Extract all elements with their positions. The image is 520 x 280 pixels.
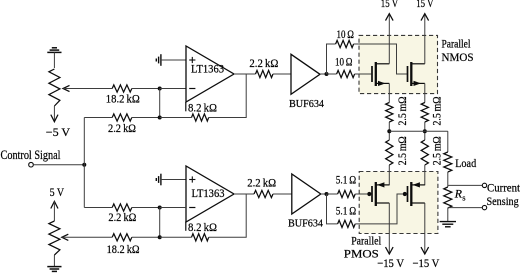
resistor R3 8.2 k (U1 feedback) xyxy=(192,114,209,121)
node F (U2 inverting input) xyxy=(158,206,162,210)
resistor Rs (current sense) xyxy=(444,187,452,208)
wire: node C to R6 xyxy=(327,73,337,75)
wire: Q4 drain down xyxy=(424,203,426,254)
wire: node B to feedback resistor R3 xyxy=(160,117,192,119)
svg-text:2.2 kΩ: 2.2 kΩ xyxy=(249,56,278,70)
label Current Sensing xyxy=(487,181,520,209)
label BUF634 (U4) xyxy=(288,217,323,229)
wire: P2 wiper row to R8 xyxy=(62,236,112,238)
wire: control branch to R7 xyxy=(84,207,112,209)
wire: Q2 source down xyxy=(424,83,426,102)
+15 V supply arrow (left) xyxy=(386,14,394,64)
wire: R16 to Q4 gate with jog xyxy=(355,194,403,224)
node G (U2 feedback summing) xyxy=(158,235,162,239)
label 10 Ohm (R5) xyxy=(337,27,355,41)
transistor Q1 (NMOS, left) xyxy=(372,62,389,86)
wire: U2 output xyxy=(234,193,254,195)
wire: U4 output to node H xyxy=(321,193,327,195)
terminal: current sensing top xyxy=(482,183,486,187)
resistor R12 2.5 mOhm (Q4 drain) xyxy=(421,140,428,165)
label BUF634 (U3) xyxy=(289,98,324,110)
label 2.2 kOhm (R4) xyxy=(249,56,278,70)
svg-text:BUF634: BUF634 xyxy=(288,217,323,229)
wire: ground to U1 + input xyxy=(161,59,186,61)
wire: node H to R15 xyxy=(327,193,338,195)
wire: node C up to R5 xyxy=(327,44,336,74)
op-amp U1 LT1363 (top) xyxy=(186,46,234,102)
svg-text:10 Ω: 10 Ω xyxy=(335,54,353,68)
wire: node F to U2 minus input xyxy=(160,207,186,209)
wire: Q1 source down xyxy=(388,83,390,102)
node A (U1 inverting input) xyxy=(158,87,162,91)
resistor R16 5.1 Ohm (gate of Q4) xyxy=(338,220,356,227)
svg-text:BUF634: BUF634 xyxy=(289,98,324,110)
transistor Q2 (NMOS, right) xyxy=(408,62,425,86)
potentiometer P2 wiper arrow xyxy=(62,234,69,240)
-15 V supply arrow (left) xyxy=(386,247,394,254)
label -15 V (right) xyxy=(413,256,440,270)
svg-text:10 Ω: 10 Ω xyxy=(337,27,355,41)
potentiometer P2 body xyxy=(49,201,60,266)
svg-text:15 V: 15 V xyxy=(416,0,434,10)
resistor R13 8.2 k (U2 feedback) xyxy=(192,234,209,241)
svg-text:2.2 kΩ: 2.2 kΩ xyxy=(247,176,276,190)
wire: output bus to load column xyxy=(389,130,448,132)
Parallel PMOS dashed highlight box xyxy=(359,172,438,234)
svg-text:s: s xyxy=(462,192,465,202)
svg-text:15 V: 15 V xyxy=(381,0,399,10)
svg-text:18.2 kΩ: 18.2 kΩ xyxy=(107,242,140,256)
wire: R5 to Q2 gate with jog xyxy=(354,44,407,74)
label 2.2 kOhm (R7) xyxy=(108,210,136,224)
control signal input terminal xyxy=(29,162,34,167)
wire: R11 into PMOS box xyxy=(388,165,390,185)
transistor Q4 (PMOS, right) xyxy=(403,182,425,206)
label 2.5 mOhm (R9) xyxy=(395,96,409,125)
svg-text:5.1 Ω: 5.1 Ω xyxy=(336,204,356,218)
wire: R12 into PMOS box xyxy=(424,165,426,185)
wire: P1 wiper row to node A xyxy=(64,88,113,90)
wire: load to Rs xyxy=(447,172,449,187)
buffer U4 BUF634 (bottom) xyxy=(292,174,321,214)
wire: Rs to ground xyxy=(447,208,449,222)
ground (below Rs) xyxy=(440,222,456,227)
ground (U1 + input) xyxy=(156,54,161,66)
wire: R3 to U1 output drop xyxy=(209,74,247,118)
resistor Load xyxy=(444,152,452,172)
resistor R1 18.2 k (wiper to U1 inverting input) xyxy=(112,85,132,92)
-15 V supply arrow (right) xyxy=(421,247,429,254)
terminal: current sensing bottom xyxy=(482,205,486,209)
wire: R9 to output bus xyxy=(388,122,390,140)
wire: control branch vertical xyxy=(83,118,85,208)
wire: node F to node G vertical xyxy=(159,208,161,238)
resistor R14 2.2 k (U2 output to U4) xyxy=(254,190,273,197)
label 8.2 kOhm (R13) with lead tick xyxy=(186,220,217,234)
svg-text:2.5 mΩ: 2.5 mΩ xyxy=(429,96,443,125)
svg-text:2.5 mΩ: 2.5 mΩ xyxy=(395,96,409,125)
wire: R13 to U2 output drop xyxy=(209,194,247,237)
svg-text:Control Signal: Control Signal xyxy=(1,148,61,162)
label 2.5 mOhm (R10) xyxy=(429,96,443,125)
wire: sense tap bottom xyxy=(448,207,483,209)
node H (U4 output) xyxy=(325,192,329,196)
label Parallel PMOS xyxy=(344,234,382,261)
label 2.2 kOhm (R14) xyxy=(247,176,276,190)
label 18.2 kOhm (R1) xyxy=(106,92,140,106)
svg-text:LT1363: LT1363 xyxy=(192,186,225,200)
wire: control terminal to junction xyxy=(33,164,84,166)
node C (U3 output) xyxy=(325,72,329,76)
potentiometer P1 body xyxy=(49,52,60,121)
ground (top-left, above potentiometer P1) xyxy=(47,48,61,53)
svg-text:2.2 kΩ: 2.2 kΩ xyxy=(108,210,136,224)
wire: node A to U1 minus input xyxy=(160,88,186,90)
svg-text:2.2 kΩ: 2.2 kΩ xyxy=(108,121,136,135)
wire: R4 to U3 input xyxy=(273,73,291,75)
svg-text:Load: Load xyxy=(455,156,476,170)
svg-text:−15 V: −15 V xyxy=(413,256,440,270)
wire: R14 to U4 input xyxy=(273,193,292,195)
node: control signal branch junction xyxy=(82,163,86,167)
resistor R11 2.5 mOhm (Q3 drain) xyxy=(386,140,393,165)
node D (output bus left) xyxy=(387,129,391,133)
arrow to 5 V supply xyxy=(51,201,58,208)
svg-text:2.5 mΩ: 2.5 mΩ xyxy=(395,136,409,165)
Parallel NMOS dashed highlight box xyxy=(359,35,438,93)
ground (bottom-left, below potentiometer P2) xyxy=(47,267,61,272)
resistor R6 10 Ohm (gate of Q1) xyxy=(337,70,355,77)
svg-text:−5 V: −5 V xyxy=(46,125,71,139)
wire: R15 to Q3 gate bubble xyxy=(355,193,367,195)
wire: R10 to output bus xyxy=(424,122,426,140)
wire: R2 to node B xyxy=(132,117,160,119)
resistor R2 2.2 k (control to U1 summing node) xyxy=(112,114,132,121)
resistor R5 10 Ohm (gate of Q2) xyxy=(336,40,354,47)
wire: node A to node B vertical xyxy=(159,89,161,118)
label -15 V (left) xyxy=(377,256,404,270)
svg-text:−15 V: −15 V xyxy=(377,256,404,270)
node B (feedback summing) xyxy=(158,116,162,120)
label 5.1 Ohm (R16) xyxy=(336,204,356,218)
resistor R15 5.1 Ohm (gate of Q3) xyxy=(338,190,356,197)
svg-text:8.2 kΩ: 8.2 kΩ xyxy=(188,220,217,234)
arrow to -5 V supply xyxy=(51,115,58,122)
potentiometer P1 wiper arrow xyxy=(63,85,70,91)
wire: U3 output to node C xyxy=(320,73,327,75)
resistor R4 2.2 k (U1 output to U3) xyxy=(256,70,274,77)
wire: R7 to node F xyxy=(132,207,160,209)
label 2.2 kOhm (R2) xyxy=(108,121,136,135)
svg-text:2.5 mΩ: 2.5 mΩ xyxy=(429,136,443,165)
wire: node H down to R16 xyxy=(327,194,338,224)
resistor R10 2.5 mOhm (Q2 source) xyxy=(421,103,428,123)
label 5.1 Ohm (R15) xyxy=(336,173,356,187)
wire: R8 to node G xyxy=(132,236,160,238)
label 15 V (left) xyxy=(381,0,399,10)
wire: R1 to node A xyxy=(132,88,160,90)
label Rs xyxy=(454,187,466,203)
svg-text:5 V: 5 V xyxy=(50,185,65,199)
svg-text:PMOS: PMOS xyxy=(344,247,379,261)
svg-text:Sensing: Sensing xyxy=(487,194,519,208)
label LT1363 (U2) xyxy=(192,186,225,200)
wire: output bus down to load xyxy=(447,131,449,152)
wire: ground to U2 + input xyxy=(161,179,186,181)
wire: sense tap top xyxy=(448,184,483,186)
label Load xyxy=(455,156,476,170)
+15 V supply arrow (right) xyxy=(421,14,429,64)
svg-text:18.2 kΩ: 18.2 kΩ xyxy=(106,92,140,106)
resistor R7 2.2 k (control to U2 summing node) xyxy=(112,204,132,211)
svg-text:5.1 Ω: 5.1 Ω xyxy=(336,173,356,187)
label 2.5 mOhm (R12) xyxy=(429,136,443,165)
svg-text:Parallel: Parallel xyxy=(442,36,472,50)
resistor R8 18.2 k (wiper to U2 summing node) xyxy=(112,234,132,241)
label 8.2 kOhm (R3) with lead tick xyxy=(186,101,217,115)
node E (output bus right) xyxy=(423,129,427,133)
label 10 Ohm (R6) xyxy=(335,54,353,68)
resistor R9 2.5 mOhm (Q1 source) xyxy=(386,103,393,123)
op-amp U2 LT1363 (bottom) xyxy=(186,166,234,222)
wire: node G to feedback resistor R13 xyxy=(160,236,192,238)
wire: control branch to R2 xyxy=(84,117,112,119)
svg-text:NMOS: NMOS xyxy=(442,50,474,64)
ground (U2 + input) xyxy=(156,174,161,186)
wire: R6 to Q1 gate xyxy=(355,73,372,75)
svg-text:Current: Current xyxy=(487,181,520,195)
svg-text:LT1363: LT1363 xyxy=(191,62,224,76)
label 5 V xyxy=(50,185,65,199)
wire: Q3 drain down xyxy=(388,203,390,254)
label Parallel NMOS xyxy=(442,36,474,64)
svg-text:8.2 kΩ: 8.2 kΩ xyxy=(188,101,217,115)
label 15 V (right) xyxy=(416,0,434,10)
label 18.2 kOhm (R8) xyxy=(107,242,140,256)
label Control Signal xyxy=(1,148,61,162)
transistor Q3 (PMOS, left) xyxy=(367,182,389,206)
label LT1363 (U1) xyxy=(191,62,224,76)
label -5 V xyxy=(46,125,71,139)
wire: U1 output xyxy=(234,73,256,75)
buffer U3 BUF634 (top) xyxy=(291,54,320,94)
label 2.5 mOhm (R11) xyxy=(395,136,409,165)
